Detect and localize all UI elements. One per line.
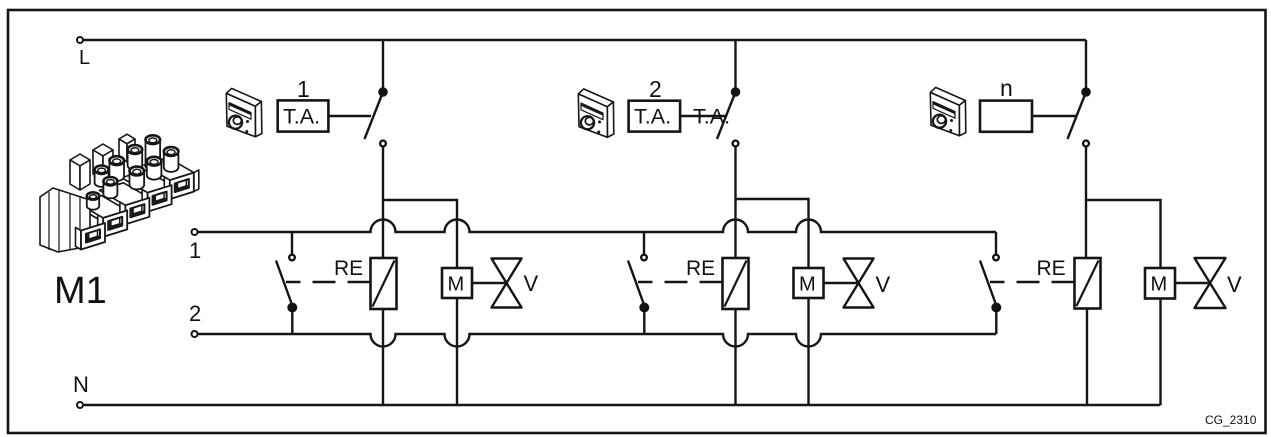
svg-text:V: V: [524, 271, 539, 296]
wire L drop to switch 1: [382, 40, 384, 88]
wire L bus: [83, 39, 1086, 41]
svg-text:2: 2: [649, 76, 662, 102]
wire L drop to switch 3: [1085, 40, 1087, 88]
junction bar branch 3: [1086, 200, 1161, 232]
svg-text:L: L: [79, 47, 90, 69]
wire RE2 to N: [734, 309, 736, 405]
wire RE1 to N: [382, 309, 384, 405]
wire M3 to valve 3: [1175, 282, 1210, 284]
valve V1: [492, 259, 522, 308]
svg-text:V: V: [1227, 272, 1242, 297]
wire T.A.2 to switch: [680, 115, 727, 117]
wire RE3 to N: [1086, 309, 1088, 406]
wire line1 end drop branch 3: [995, 232, 997, 255]
thermostat icon branch 3: [930, 87, 966, 135]
T.A. box 3 (unlabelled): [980, 101, 1032, 132]
motor M branch 1: [442, 268, 472, 298]
junction bar branch 1: [383, 200, 457, 215]
thermostat icon branch 2: [578, 89, 614, 137]
wire line 1 with hops: [198, 220, 997, 233]
node 2 terminal: [192, 331, 198, 337]
relay coil column branch 2 (wire): [734, 199, 736, 258]
node N terminal: [77, 402, 83, 408]
motor M branch 2: [794, 268, 824, 298]
svg-text:M: M: [1151, 274, 1168, 296]
node L terminal: [77, 37, 83, 43]
svg-text:1: 1: [189, 238, 201, 263]
relay RE2: [723, 258, 749, 309]
svg-text:M1: M1: [54, 270, 107, 312]
wire M1 column branch 1: [456, 215, 458, 405]
wire M1 to valve 1: [472, 282, 507, 284]
wire T.A.1 to switch: [328, 115, 371, 117]
T.A. box 2: [629, 101, 681, 132]
junction bar branch 2: [736, 199, 809, 215]
thermostat icon branch 1: [226, 88, 261, 136]
relay RE1: [371, 258, 397, 309]
node 1 terminal: [192, 229, 198, 235]
svg-text:2: 2: [189, 301, 201, 326]
relay coil column branch 1 (wire): [382, 200, 384, 258]
wire line 2 with hops: [198, 334, 997, 347]
svg-text:T.A.: T.A.: [634, 105, 671, 129]
switch T.A.2: [717, 88, 739, 199]
svg-text:CG_2310: CG_2310: [1205, 413, 1257, 427]
svg-text:T.A.: T.A.: [693, 105, 730, 129]
svg-text:1: 1: [297, 76, 310, 102]
relay coil column branch 3 (wire): [1085, 200, 1087, 258]
wire box 3 to switch: [1032, 115, 1077, 117]
svg-text:RE: RE: [686, 257, 715, 280]
wire M2 to valve 2: [824, 282, 859, 284]
wire M column branch 3: [1159, 232, 1161, 405]
switch T.A.3: [1068, 88, 1090, 200]
valve V2: [844, 259, 874, 308]
wire N bus: [83, 404, 1161, 406]
M1 terminal block: [40, 134, 199, 252]
contact RE1: [276, 232, 371, 334]
svg-text:V: V: [876, 272, 891, 297]
motor M branch 3: [1145, 268, 1175, 299]
svg-text:M: M: [799, 274, 816, 296]
svg-text:M: M: [448, 274, 465, 296]
svg-text:RE: RE: [334, 257, 363, 280]
wire M column branch 2: [807, 215, 809, 405]
svg-text:RE: RE: [1037, 257, 1066, 280]
contact RE3: [980, 255, 1075, 334]
valve V3: [1195, 258, 1226, 308]
wire L drop to switch 2: [734, 40, 736, 88]
relay RE3: [1075, 258, 1101, 309]
contact RE2: [628, 232, 723, 334]
switch T.A.1: [365, 88, 387, 200]
T.A. box 1: [278, 100, 329, 131]
svg-text:n: n: [1000, 75, 1013, 101]
svg-text:N: N: [73, 372, 89, 397]
svg-text:T.A.: T.A.: [283, 105, 320, 129]
